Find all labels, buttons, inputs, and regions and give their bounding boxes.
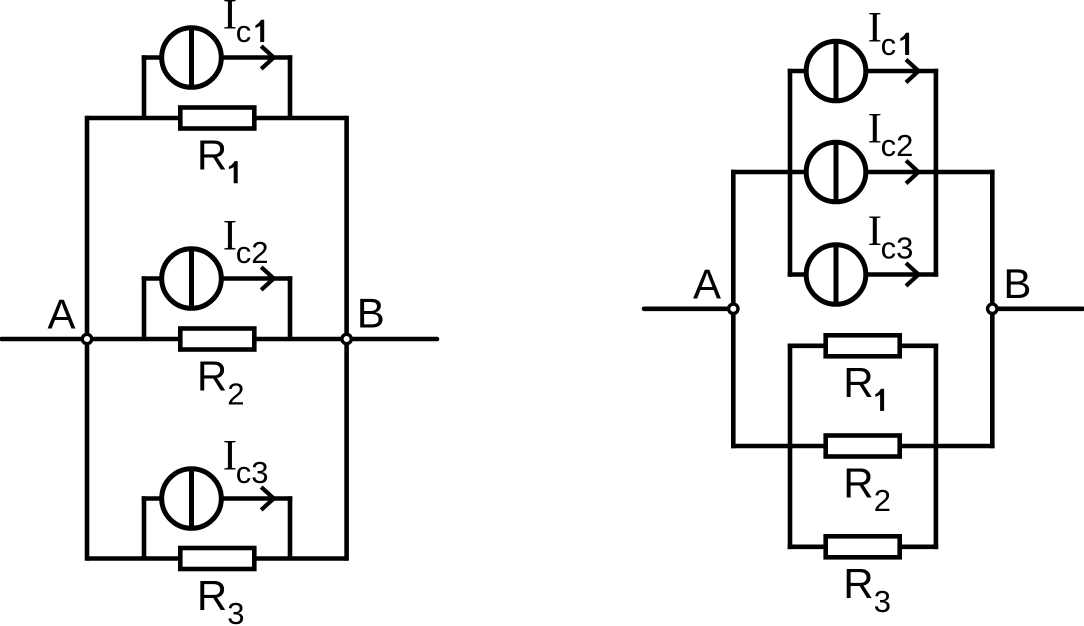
node A terminal (right circuit) <box>729 304 738 313</box>
label Ic3 (right) <box>868 208 914 266</box>
current source Ic1 (left) <box>162 26 222 90</box>
svg-text:c: c <box>236 455 252 490</box>
wire source loop left vertical branch 1 (left) <box>142 55 147 118</box>
svg-text:3: 3 <box>874 584 891 619</box>
label B (left circuit) <box>357 290 385 337</box>
wire left outer vertical (left circuit) <box>85 116 90 561</box>
node B terminal (right circuit) <box>988 304 997 313</box>
label Ic3 (left) <box>223 433 269 491</box>
svg-text:R: R <box>197 132 227 179</box>
svg-text:2: 2 <box>896 128 913 163</box>
current source Ic2 (left) <box>162 247 222 311</box>
wire resistor row R1 (right) <box>788 343 939 348</box>
label B (right circuit) <box>1003 260 1031 307</box>
wire resistor row R3 (right) <box>788 544 939 549</box>
arrow current direction Ic2 (right) <box>906 161 919 184</box>
current source Ic3 (right) <box>806 243 866 307</box>
node B terminal (left circuit) <box>342 334 351 343</box>
resistor R3 (left) <box>180 548 254 569</box>
node A terminal (left circuit) <box>82 334 91 343</box>
wire bottom branch line (left circuit) <box>87 556 347 561</box>
wire source row Ic2 (right) <box>731 170 995 175</box>
svg-text:R: R <box>197 353 227 400</box>
wire source row Ic1 (right) <box>788 69 939 74</box>
current source Ic3 (left) <box>162 467 222 531</box>
svg-text:3: 3 <box>251 455 268 490</box>
svg-text:A: A <box>693 260 721 307</box>
label A (right circuit) <box>693 260 721 307</box>
svg-text:B: B <box>1003 260 1031 307</box>
label R2 (left) <box>197 353 245 412</box>
svg-text:R: R <box>843 359 873 406</box>
resistor R2 (right) <box>826 436 900 457</box>
label R3 (right) <box>843 560 891 619</box>
svg-text:R: R <box>843 459 873 506</box>
wire source loop top branch 2 (left) <box>142 276 293 281</box>
wire right outer vertical (left circuit) <box>344 116 349 561</box>
label R2 (right) <box>843 459 891 518</box>
wire source bus left vertical (right circuit) <box>788 69 793 277</box>
svg-text:c: c <box>881 128 897 163</box>
arrow current direction Ic1 (left) <box>261 46 274 69</box>
resistor R2 (left) <box>180 329 254 350</box>
wire source row Ic3 (right) <box>788 272 939 277</box>
resistor R1 (left) <box>180 108 254 129</box>
wire source loop right vertical branch 3 (left) <box>288 496 293 558</box>
svg-text:A: A <box>48 290 76 337</box>
arrow current direction Ic3 (left) <box>261 487 274 510</box>
wire source loop right vertical branch 2 (left) <box>288 276 293 339</box>
svg-text:2: 2 <box>227 376 244 411</box>
wire lead B horizontal (right circuit) <box>992 306 1083 311</box>
current source Ic1 (right) <box>806 39 866 103</box>
wire node A vertical (right circuit) <box>731 170 736 449</box>
current source Ic2 (right) <box>806 140 866 204</box>
wire node B vertical (right circuit) <box>990 170 995 449</box>
svg-text:2: 2 <box>251 235 268 270</box>
wire top branch line (left circuit) <box>87 116 347 121</box>
svg-text:c: c <box>236 235 252 270</box>
wire source loop left vertical branch 3 (left) <box>142 496 147 558</box>
resistor R1 (right) <box>826 335 900 356</box>
arrow current direction Ic3 (right) <box>906 263 919 286</box>
label R1 (left) <box>197 132 238 184</box>
arrow current direction Ic2 (left) <box>261 267 274 290</box>
label Ic1 (right) <box>868 5 910 63</box>
svg-text:2: 2 <box>874 483 891 518</box>
wire source loop right vertical branch 1 (left) <box>288 55 293 118</box>
wire source bus right vertical (right circuit) <box>934 69 939 277</box>
svg-text:R: R <box>197 572 227 619</box>
svg-text:c: c <box>881 231 897 266</box>
wire resistor row R2 (right) <box>731 444 995 449</box>
wire resistor bus right vertical (right circuit) <box>934 344 939 550</box>
svg-text:R: R <box>843 560 873 607</box>
wire source loop top branch 1 (left) <box>142 55 293 60</box>
wire A-B main horizontal (left circuit) <box>2 337 438 342</box>
arrow current direction Ic1 (right) <box>906 60 919 83</box>
wire source loop top branch 3 (left) <box>142 496 293 501</box>
wire source loop left vertical branch 2 (left) <box>142 276 147 339</box>
label Ic2 (left) <box>223 213 269 271</box>
wire lead A horizontal (right circuit) <box>644 306 733 311</box>
wire resistor bus left vertical (right circuit) <box>788 344 793 550</box>
resistor R3 (right) <box>826 536 900 557</box>
label A (left circuit) <box>48 290 76 337</box>
label R1 (right) <box>843 359 884 411</box>
label Ic2 (right) <box>868 106 914 164</box>
svg-text:B: B <box>357 290 385 337</box>
label R3 (left) <box>197 572 245 626</box>
svg-text:c: c <box>236 14 252 49</box>
svg-text:3: 3 <box>896 231 913 266</box>
svg-text:3: 3 <box>227 596 244 626</box>
label Ic1 (left) <box>223 0 264 49</box>
svg-text:c: c <box>881 27 897 62</box>
